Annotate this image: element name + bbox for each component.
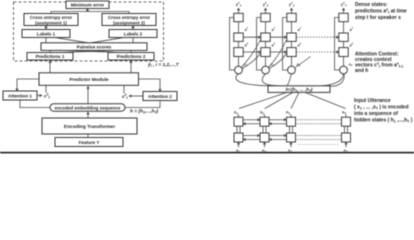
encoder bidirectional horizontal links row1: [243, 120, 342, 140]
wire: c_t^2 up to predictor: [123, 86, 125, 94]
box: Cross entropy error assignment 2: [102, 14, 156, 26]
circle c_3: [288, 66, 296, 74]
wire: c_t^1 up to predictor: [45, 86, 47, 94]
box: Encoding Transformer: [42, 118, 137, 134]
wire: attention1 down to embedding pill: [20, 100, 50, 108]
t=1 rnn square 2: [234, 33, 243, 41]
svg-text:ŷi , i = 1,2,...,T: ŷi , i = 1,2,...,T: [147, 62, 180, 68]
svg-text:c1t: c1t: [44, 93, 50, 100]
pill: encoded embedding sequence: [50, 104, 125, 111]
decoder trellis columns: [230, 18, 340, 71]
svg-text:( x1 , ... ,xT ) is encoded: ( x1 , ... ,xT ) is encoded: [354, 105, 409, 111]
wire: predictor to attention 1: [17, 79, 39, 91]
decoder column t=1 : loop: [230, 18, 235, 71]
annotation: input utterance: [354, 98, 413, 124]
enc sq r1c2: [260, 117, 269, 126]
box: Predictions 2: [108, 53, 154, 61]
labels c_t^s near circles: [244, 63, 353, 68]
svg-text:Labels 2: Labels 2: [124, 31, 143, 36]
vertical links inside columns: [239, 22, 344, 66]
svg-text:Attention 2: Attention 2: [148, 94, 172, 99]
encoder vertical links: [237, 114, 348, 147]
svg-text:(assignment 2): (assignment 2): [113, 20, 145, 25]
svg-text:a2: a2: [298, 43, 302, 48]
svg-text:Cross entropy error: Cross entropy error: [108, 15, 151, 20]
svg-text:Encoding Transformer: Encoding Transformer: [64, 124, 115, 130]
t=1 output square: [234, 13, 243, 21]
svg-text:ys2: ys2: [262, 1, 269, 8]
enc sq r2c3: [287, 133, 296, 142]
svg-text:a2: a2: [272, 43, 276, 48]
enc sq r2c2: [260, 133, 269, 142]
svg-text:step t for speaker s: step t for speaker s: [355, 15, 401, 21]
wire: pill up to predictor module: [87, 86, 89, 104]
svg-text:Cross entropy error: Cross entropy error: [30, 15, 73, 20]
box: h=(h1,...,hT): [268, 86, 330, 93]
svg-text:hidden states ( h1 ,...,hT ): hidden states ( h1 ,...,hT ): [354, 118, 413, 124]
wire: CE errors up to minimum error: [51, 9, 129, 15]
box: Attention 2: [143, 92, 177, 101]
svg-text:(assignment 1): (assignment 1): [35, 20, 67, 25]
encoder hidden labels h_i: [234, 111, 346, 116]
svg-text:Attention 1: Attention 1: [8, 94, 32, 99]
enc sq r2cT: [342, 133, 351, 142]
circle c_1: [235, 66, 243, 74]
box: Labels 1: [22, 30, 70, 38]
context arcs circle->next column: [242, 40, 311, 69]
box: Predictor Module: [39, 73, 139, 86]
box: Attention 1: [3, 91, 37, 100]
encoder squares row 1: [234, 117, 351, 142]
wire: pairwise scores up to labels crossing: [46, 38, 133, 43]
wire: labels up to CE boxes: [46, 26, 133, 30]
enc sq r1c1: [234, 117, 243, 126]
decoder column t=3 : loop: [283, 18, 288, 71]
svg-text:a2: a2: [350, 43, 354, 48]
svg-text:h1: h1: [234, 111, 238, 116]
box: Predictions 1: [27, 53, 73, 61]
t=2 rnn square 3: [261, 48, 270, 57]
svg-text:Dense states:: Dense states:: [355, 2, 388, 8]
box: Pairwise scores: [41, 43, 147, 51]
box: Labels 2: [109, 30, 157, 38]
wire: predictor to attention 2: [139, 79, 161, 92]
svg-text:predictions ast at time: predictions ast at time: [355, 8, 407, 15]
circle c_2: [262, 66, 270, 74]
svg-text:cT: cT: [349, 63, 353, 68]
arcs h box to circles: [236, 74, 344, 86]
wire: attention2 down to embedding pill: [125, 101, 160, 108]
svg-text:a1: a1: [298, 27, 302, 32]
attention context circles: [235, 66, 348, 74]
svg-text:h3: h3: [286, 111, 290, 116]
svg-text:h2: h2: [260, 111, 264, 116]
svg-text:and h: and h: [355, 68, 368, 74]
box: Feature Y: [55, 138, 123, 147]
t=2 output square: [261, 13, 270, 21]
enc sq r2c1: [234, 133, 243, 142]
decoder column t=T : loop: [335, 18, 340, 71]
svg-text:a1: a1: [350, 27, 354, 32]
decoder squares: [234, 13, 348, 56]
labels a_t^s near squares: [245, 27, 354, 48]
wire: attention2 to c_t^2: [129, 95, 143, 97]
t=3 rnn square 2: [287, 33, 296, 41]
wire: predictor module up to predictions: [50, 60, 131, 73]
svg-text:Predictions 2: Predictions 2: [117, 54, 146, 59]
svg-text:a1: a1: [245, 27, 249, 32]
recurrent horizontal links between columns: [243, 37, 339, 52]
annotation: attention context: [355, 52, 403, 75]
svg-text:a1: a1: [272, 27, 276, 32]
svg-text:Labels 1: Labels 1: [37, 31, 56, 36]
svg-text:Predictor Module: Predictor Module: [69, 77, 109, 83]
enc sq r1cT: [342, 117, 351, 126]
decoder column t=2 : loop: [257, 18, 262, 71]
svg-text:Feature Y: Feature Y: [79, 140, 100, 145]
dashed training-objective box: [14, 2, 164, 61]
t=T rnn square 2: [339, 33, 348, 41]
output arrows and labels y_t^s: [239, 8, 344, 13]
svg-text:a2: a2: [245, 43, 249, 48]
svg-text:ys1: ys1: [235, 1, 242, 8]
t=T rnn square 3: [339, 48, 348, 57]
wire: encoder up to pill: [87, 112, 89, 118]
wire: attention1 to c_t^1: [37, 95, 42, 97]
box: Minimum error: [66, 1, 109, 9]
svg-text:Minimum error: Minimum error: [71, 3, 105, 9]
svg-text:ysT: ysT: [340, 1, 347, 8]
box: Cross entropy error assignment 1: [24, 14, 78, 26]
svg-text:h = (h1,...,hT): h = (h1,...,hT): [130, 109, 159, 115]
dotted continuation at input level: [298, 144, 339, 146]
wire: predictions up to pairwise scores crossing: [50, 50, 131, 52]
t=3 rnn square 3: [287, 48, 296, 57]
t=3 output square: [287, 13, 296, 21]
circle c_T: [340, 66, 348, 74]
enc sq r1c3: [287, 117, 296, 126]
svg-text:encoded embedding sequence: encoded embedding sequence: [55, 105, 121, 110]
wire: feature Y up to encoder: [87, 134, 89, 137]
svg-text:into a sequence of: into a sequence of: [354, 111, 398, 117]
svg-text:Predictions 1: Predictions 1: [36, 54, 65, 59]
t=T output square: [339, 13, 348, 21]
fan lines h box down to encoder columns: [239, 92, 346, 108]
encoder input labels x_i: [235, 149, 348, 154]
svg-text:Input Utterance: Input Utterance: [354, 98, 391, 104]
svg-text:c2t: c2t: [122, 93, 128, 100]
annotation: dense states: [355, 2, 407, 21]
svg-text:ys3: ys3: [288, 1, 295, 8]
t=2 rnn square 2: [261, 33, 270, 41]
t=1 rnn square 3: [234, 48, 243, 57]
page rule: bottom separator line: [0, 152, 414, 154]
svg-text:Pairwise scores: Pairwise scores: [77, 44, 112, 49]
